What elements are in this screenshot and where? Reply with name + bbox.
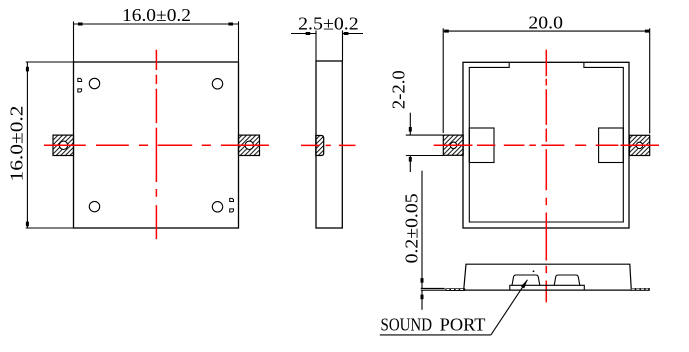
mounting hole circle top-right [212, 79, 222, 89]
left terminal lead bar [445, 288, 465, 291]
dimension 16.0±0.2 (left) line [26, 62, 28, 228]
dimension 20.0 line [443, 30, 650, 32]
centerline horizontal (view 1) [44, 144, 269, 146]
dimension 20.0 tick left [444, 30, 449, 33]
front square body outline [74, 62, 239, 228]
mounting hole circle top-left [89, 78, 99, 88]
svg-text:16.0±0.2: 16.0±0.2 [6, 106, 26, 182]
mounting hole circle bottom-left [89, 201, 99, 211]
side view rectangle [316, 61, 342, 228]
profile body outline [464, 264, 632, 290]
polarity mark near top-left circle (lower) [78, 89, 82, 92]
right terminal tab (hatched) [239, 135, 260, 155]
polarity mark near bottom-right circle (upper) [230, 198, 234, 201]
dimension 0.2±0.05 lower line [421, 290, 423, 310]
back view left tab (hatched) [443, 135, 463, 155]
back view left tab hole [450, 142, 456, 148]
svg-text:20.0: 20.0 [528, 12, 563, 32]
svg-text:0.2±0.05: 0.2±0.05 [402, 193, 422, 263]
sound port bump right [554, 275, 580, 285]
back view left solder pad [469, 128, 494, 163]
label SOUND PORT leader arrowhead [521, 279, 528, 288]
right terminal lead bar [631, 288, 650, 291]
dimension 16.0±0.2 (top) tick left [78, 23, 83, 26]
polarity mark near top-left circle (upper) [78, 78, 82, 81]
dimension 0.2±0.05 upper line [421, 171, 423, 289]
dimension 2-2.0 lower line [409, 156, 411, 173]
small speck above bump [533, 270, 535, 272]
label SOUND PORT leader line [491, 280, 528, 335]
svg-text:PORT: PORT [440, 315, 486, 335]
svg-text:16.0±0.2: 16.0±0.2 [122, 5, 191, 25]
right terminal tab hole [245, 141, 253, 149]
left terminal tab hole [59, 141, 67, 149]
centerline horizontal (view 3) [434, 144, 659, 146]
dimension 2-2.0 lower tick [409, 157, 412, 162]
left terminal lead white dashes [446, 289, 464, 291]
dimension 20.0 tick right [645, 30, 650, 33]
mounting hole circle bottom-right [212, 202, 222, 212]
polarity mark near bottom-right circle (lower) [230, 209, 234, 212]
label SOUND PORT underline [380, 334, 491, 336]
centerline vertical (views 3 and 4) [545, 50, 547, 303]
dimension 2-2.0 extension lines [406, 135, 444, 155]
dimension 0.2±0.05 upper tick [421, 278, 424, 283]
dimension 16.0±0.2 (top) line [74, 23, 239, 25]
dimension 2.5±0.2 tick left [306, 32, 311, 35]
sound port bump left [512, 275, 540, 285]
dimension 0.2±0.05 lower tick [421, 295, 424, 300]
dimension 2-2.0 upper line [409, 113, 411, 135]
dimension 16.0±0.2 (top) extension lines [74, 21, 239, 61]
dimension 16.0±0.2 (left) tick top [26, 67, 29, 72]
back view right tab hole [636, 142, 642, 148]
dimension 16.0±0.2 (left) tick bottom [26, 222, 29, 227]
dimension 2.5±0.2 extension lines [316, 31, 343, 62]
dimension 2-2.0 upper tick [409, 127, 412, 132]
left terminal tab (hatched) [53, 135, 74, 155]
profile pedestal [510, 285, 585, 290]
back view right tab (hatched) [630, 135, 650, 155]
dimension 2.5±0.2 line outside-right [343, 33, 364, 35]
side view terminal tab (hatched, section) [316, 136, 324, 156]
svg-text:2-2.0: 2-2.0 [389, 70, 409, 109]
right terminal lead white dashes [632, 288, 649, 290]
dimension 20.0 extension lines [443, 28, 650, 133]
dimension 16.0±0.2 (left) extension lines [26, 62, 74, 228]
dimension 16.0±0.2 (top) tick right [228, 23, 233, 26]
back view inner wall with top sound recess [469, 62, 623, 222]
dimension 2.5±0.2 line outside-left [291, 33, 316, 35]
left terminal lead lower line (extension) [421, 289, 464, 291]
svg-text:2.5±0.2: 2.5±0.2 [298, 14, 359, 34]
dimension 2.5±0.2 tick right [344, 32, 349, 35]
svg-text:SOUND: SOUND [381, 315, 433, 335]
left terminal lead upper line (solid part / extension) [421, 287, 445, 289]
centerline horizontal (view 2) [301, 144, 356, 146]
back view outer square [463, 62, 629, 228]
centerline vertical (view 1) [155, 50, 157, 239]
back view right solder pad [599, 128, 624, 163]
